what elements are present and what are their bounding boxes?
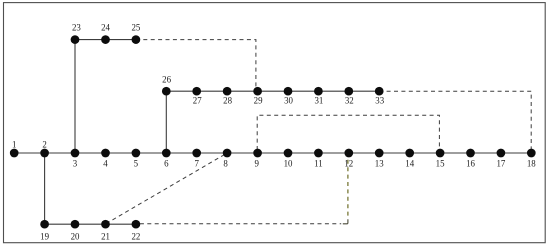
svg-text:24: 24 <box>101 22 110 32</box>
node bus 30 <box>284 87 293 96</box>
svg-text:9: 9 <box>254 159 259 169</box>
node bus 5 <box>132 149 141 158</box>
node bus 16 <box>466 149 475 158</box>
wire branch 14-15 <box>410 152 440 154</box>
node bus 8 <box>223 149 232 158</box>
wire branch 5-6 <box>136 152 166 154</box>
svg-text:29: 29 <box>254 95 263 105</box>
tie switch 33-18 dashed <box>379 91 531 149</box>
svg-text:12: 12 <box>344 159 353 169</box>
node bus 24 <box>101 35 110 44</box>
wire branch 3-4 <box>75 152 106 154</box>
wire branch 32-33 <box>349 90 379 92</box>
wire branch 6-7 <box>166 152 196 154</box>
wire branch 6-26 <box>165 91 167 153</box>
node bus 27 <box>192 87 201 96</box>
tie switch 9-15 dashed <box>257 115 439 150</box>
wire branch 27-28 <box>197 90 227 92</box>
svg-text:7: 7 <box>194 159 199 169</box>
node bus 14 <box>405 149 414 158</box>
svg-text:8: 8 <box>223 159 228 169</box>
wire branch 2-3 <box>45 152 75 154</box>
svg-text:31: 31 <box>314 95 323 105</box>
svg-text:16: 16 <box>466 159 475 169</box>
svg-text:32: 32 <box>345 95 354 105</box>
wire branch 12-13 <box>349 152 379 154</box>
tie switch 22-12 olive dashed vertical run <box>347 154 349 216</box>
svg-text:30: 30 <box>284 95 293 105</box>
wire branch 19-20 <box>45 223 75 225</box>
wire branch 13-14 <box>379 152 410 154</box>
wire branch 1-2 <box>14 152 44 154</box>
node bus 19 <box>40 220 49 229</box>
node bus 29 <box>253 87 262 96</box>
wire branch 3-23 <box>74 40 76 153</box>
svg-text:23: 23 <box>72 22 81 32</box>
wire branch 28-29 <box>227 90 258 92</box>
node bus 15 <box>436 149 445 158</box>
svg-text:33: 33 <box>375 95 384 105</box>
svg-text:5: 5 <box>134 159 139 169</box>
node bus 4 <box>101 149 110 158</box>
wire branch 17-18 <box>501 152 531 154</box>
node bus 22 <box>132 220 141 229</box>
svg-text:15: 15 <box>436 159 445 169</box>
wire branch 15-16 <box>440 152 470 154</box>
svg-text:6: 6 <box>164 159 169 169</box>
node bus 11 <box>314 149 323 158</box>
node bus 21 <box>101 220 110 229</box>
svg-text:21: 21 <box>101 232 110 242</box>
wire branch 11-12 <box>318 152 348 154</box>
svg-text:10: 10 <box>284 159 293 169</box>
svg-text:19: 19 <box>40 232 49 242</box>
node bus 10 <box>284 149 293 158</box>
node bus 7 <box>192 149 201 158</box>
svg-text:20: 20 <box>71 232 80 242</box>
node bus 28 <box>223 87 232 96</box>
tie switch 8-21 dashed diagonal <box>109 155 225 223</box>
wire branch 31-32 <box>318 90 348 92</box>
svg-text:13: 13 <box>375 159 384 169</box>
node bus 3 <box>71 149 80 158</box>
node bus 6 <box>162 149 171 158</box>
node bus 26 <box>162 87 171 96</box>
svg-text:22: 22 <box>131 232 140 242</box>
wire branch 23-24 <box>75 39 106 41</box>
wire branch 30-31 <box>288 90 318 92</box>
node bus 9 <box>253 149 262 158</box>
wire branch 2-19 <box>44 153 46 224</box>
svg-text:3: 3 <box>73 159 78 169</box>
tie switch 22-12 corner elbow <box>343 219 348 224</box>
node bus 25 <box>132 35 141 44</box>
svg-text:1: 1 <box>12 139 16 149</box>
wire branch 24-25 <box>106 39 136 41</box>
tie switch 22-12 dashed horizontal run <box>140 223 341 225</box>
svg-text:2: 2 <box>42 139 46 149</box>
wire branch 7-8 <box>197 152 227 154</box>
node bus 23 <box>71 35 80 44</box>
wire branch 16-17 <box>471 152 501 154</box>
node bus 31 <box>314 87 323 96</box>
node bus 2 <box>40 149 49 158</box>
wire branch 9-10 <box>258 152 288 154</box>
node bus 32 <box>344 87 353 96</box>
wire branch 10-11 <box>288 152 318 154</box>
svg-text:14: 14 <box>405 159 414 169</box>
wire branch 4-5 <box>106 152 136 154</box>
node bus 17 <box>497 149 506 158</box>
svg-text:4: 4 <box>103 159 108 169</box>
node bus 20 <box>71 220 80 229</box>
svg-text:25: 25 <box>131 22 140 32</box>
node bus 13 <box>375 149 384 158</box>
node bus 33 <box>375 87 384 96</box>
wire branch 29-30 <box>258 90 288 92</box>
svg-text:11: 11 <box>314 159 323 169</box>
svg-text:28: 28 <box>223 95 232 105</box>
node bus 18 <box>527 149 536 158</box>
svg-text:27: 27 <box>193 95 202 105</box>
wire branch 21-22 <box>106 223 136 225</box>
svg-text:26: 26 <box>162 75 171 85</box>
tie switch 25-29 dashed <box>136 40 256 89</box>
svg-text:17: 17 <box>496 159 505 169</box>
node bus 1 <box>10 149 19 158</box>
node bus 12 <box>344 149 353 158</box>
wire branch 26-27 <box>166 90 196 92</box>
svg-text:18: 18 <box>527 159 536 169</box>
wire branch 8-9 <box>227 152 258 154</box>
wire branch 20-21 <box>75 223 106 225</box>
